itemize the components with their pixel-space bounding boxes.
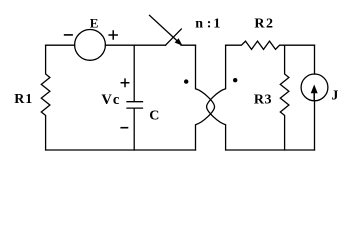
svg-text:C: C [149,108,159,123]
svg-text:J: J [331,89,338,104]
svg-text:E: E [90,16,99,31]
svg-text:n:1: n:1 [195,16,220,31]
svg-text:Vc: Vc [101,92,120,108]
svg-text:R2: R2 [254,17,273,32]
svg-text:R1: R1 [14,92,32,107]
svg-text:R3: R3 [254,93,272,108]
